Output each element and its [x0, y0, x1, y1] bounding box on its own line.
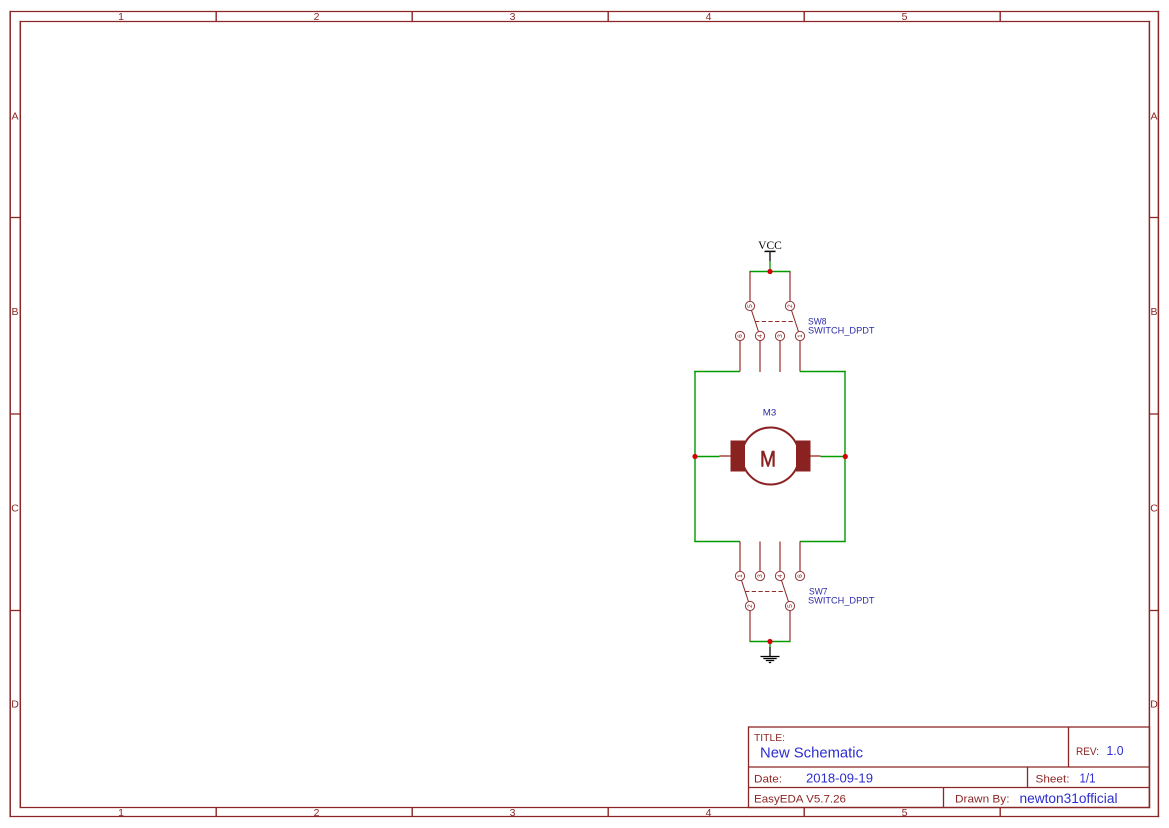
frame tick marks top [216, 12, 1000, 22]
svg-text:Sheet:: Sheet: [1036, 774, 1070, 786]
svg-text:2: 2 [787, 304, 794, 308]
pin 6 wire [799, 542, 801, 572]
svg-text:SWITCH_DPDT: SWITCH_DPDT [808, 326, 875, 336]
wire motor left [694, 456, 719, 458]
svg-text:newton31official: newton31official [1020, 791, 1118, 806]
brush right [796, 441, 811, 472]
title block outline [749, 727, 1150, 808]
pin 4 circle [775, 571, 784, 580]
pin 6 circle [735, 331, 744, 340]
REV separator [1068, 727, 1070, 767]
frame row letters right [1150, 111, 1158, 711]
pin 3 circle [775, 331, 784, 340]
wire motor right [821, 456, 846, 458]
title block [749, 727, 1150, 808]
svg-text:VCC: VCC [758, 240, 782, 252]
pin 4 wire [759, 341, 761, 372]
svg-text:5: 5 [787, 604, 794, 608]
wire loop right vertical [844, 371, 846, 542]
pin 4 wire [779, 542, 781, 572]
svg-text:Date:: Date: [754, 774, 782, 786]
frame column numbers top [118, 11, 908, 23]
svg-text:TITLE:: TITLE: [754, 732, 785, 744]
switch arm 4-5 [782, 580, 789, 601]
pin 1 wire [739, 542, 741, 572]
pin 6 wire [739, 341, 741, 372]
junction at VCC [767, 269, 772, 274]
svg-text:4: 4 [757, 334, 764, 338]
svg-text:M: M [760, 446, 776, 471]
svg-text:1: 1 [118, 807, 124, 819]
svg-text:2: 2 [747, 604, 754, 608]
svg-text:D: D [11, 698, 19, 710]
pin 5 circle [745, 301, 754, 310]
pin 2 circle [785, 301, 794, 310]
svg-text:2018-09-19: 2018-09-19 [806, 771, 873, 786]
pin 4 circle [755, 331, 764, 340]
svg-text:4: 4 [706, 807, 712, 819]
svg-text:C: C [11, 503, 19, 515]
wire loop bottom-left [694, 541, 740, 543]
frame column numbers bottom [118, 807, 908, 819]
pin 2 circle [745, 601, 754, 610]
net flag VCC [758, 240, 782, 261]
junction at ground [767, 639, 772, 644]
svg-text:3: 3 [510, 807, 516, 819]
wire loop top-right [800, 371, 846, 373]
svg-text:1: 1 [118, 11, 124, 23]
svg-text:A: A [11, 111, 18, 123]
Drawn By separator [943, 788, 945, 808]
switch arm 2-1 [792, 310, 799, 331]
svg-text:B: B [11, 306, 18, 318]
svg-text:D: D [1150, 698, 1158, 710]
svg-text:1.0: 1.0 [1107, 743, 1124, 758]
pin 5 wire [749, 272, 751, 302]
pin 3 circle [755, 571, 764, 580]
wire SW7 bottom horizontal [749, 641, 790, 643]
pin stub left [720, 455, 731, 457]
svg-text:6: 6 [737, 334, 744, 338]
svg-text:3: 3 [777, 334, 784, 338]
svg-text:C: C [1150, 503, 1158, 515]
svg-text:6: 6 [797, 574, 804, 578]
pin 3 wire [759, 542, 761, 572]
pin 1 wire [799, 341, 801, 372]
Sheet separator [1027, 767, 1029, 788]
pin 5 circle [785, 601, 794, 610]
pin 1 circle [795, 331, 804, 340]
pin 5 wire [789, 611, 791, 642]
junction motor right [843, 454, 848, 459]
svg-text:3: 3 [510, 11, 516, 23]
wire loop left vertical [694, 371, 696, 542]
pin 2 wire [749, 611, 751, 642]
svg-text:2: 2 [314, 807, 320, 819]
frame row letters left [11, 111, 19, 711]
svg-text:1: 1 [797, 334, 804, 338]
svg-text:SWITCH_DPDT: SWITCH_DPDT [808, 596, 875, 606]
frame tick marks right [1150, 218, 1159, 611]
wire SW8 top horizontal [749, 271, 790, 273]
pin 6 circle [795, 571, 804, 580]
wire VCC stub [769, 261, 771, 272]
switch arm 5-4 [752, 310, 759, 331]
svg-text:Drawn By:: Drawn By: [955, 794, 1010, 806]
frame tick marks left [11, 218, 21, 611]
svg-text:A: A [1150, 111, 1157, 123]
gang dashed link [755, 321, 795, 323]
ground [761, 647, 780, 663]
svg-text:4: 4 [777, 574, 784, 578]
svg-text:1/1: 1/1 [1080, 771, 1096, 786]
wire loop bottom-right [800, 541, 846, 543]
switch SW7 [735, 542, 804, 642]
svg-text:5: 5 [902, 11, 908, 23]
motor body circle [742, 428, 799, 485]
pin 3 wire [779, 341, 781, 372]
gang dashed link [745, 591, 785, 593]
frame tick marks bottom [216, 808, 1000, 817]
wire ground stub [769, 642, 771, 648]
row divider 2 [749, 787, 1150, 789]
svg-text:1: 1 [737, 574, 744, 578]
svg-text:5: 5 [902, 807, 908, 819]
switch arm 1-2 [742, 580, 749, 601]
svg-text:5: 5 [747, 304, 754, 308]
svg-text:3: 3 [757, 574, 764, 578]
wire loop top-left [694, 371, 740, 373]
svg-text:New Schematic: New Schematic [760, 745, 863, 762]
svg-text:EasyEDA V5.7.26: EasyEDA V5.7.26 [754, 794, 846, 806]
pin 1 circle [735, 571, 744, 580]
motor M3 [720, 428, 821, 485]
row divider 1 [749, 766, 1150, 768]
svg-text:M3: M3 [763, 408, 777, 418]
switch SW8 [735, 272, 804, 373]
svg-text:2: 2 [314, 11, 320, 23]
svg-text:B: B [1150, 306, 1157, 318]
pin stub right [810, 455, 821, 457]
svg-text:REV:: REV: [1076, 746, 1099, 758]
junction motor left [692, 454, 697, 459]
svg-text:4: 4 [706, 11, 712, 23]
brush left [731, 441, 746, 472]
pin 2 wire [789, 272, 791, 302]
